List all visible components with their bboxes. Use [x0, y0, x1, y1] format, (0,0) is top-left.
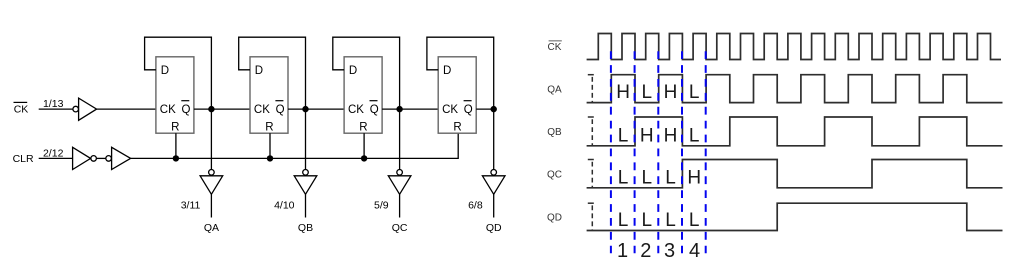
wire feedback Qbar to D of U1 [145, 37, 212, 109]
wire QC initial-state dashed marker [588, 159, 594, 161]
svg-text:D: D [255, 65, 263, 77]
inverter output buffer QC [397, 170, 403, 176]
svg-text:QB: QB [298, 222, 313, 234]
svg-text:L: L [689, 210, 700, 231]
svg-text:CK: CK [254, 104, 270, 116]
svg-text:1: 1 [617, 240, 628, 262]
inverter output buffer QD [491, 170, 497, 176]
inverter output buffer QA [209, 170, 215, 176]
svg-text:CK: CK [548, 42, 562, 53]
flip-flop U2 box [250, 57, 288, 133]
svg-text:H: H [687, 167, 701, 188]
svg-text:1/13: 1/13 [43, 98, 64, 110]
wire feedback Qbar to D of U2 [239, 37, 306, 109]
junction on CLR rail at U2 [267, 155, 273, 161]
svg-text:R: R [453, 121, 461, 133]
svg-text:L: L [642, 167, 653, 188]
wire output QD [493, 194, 495, 217]
svg-text:L: L [618, 210, 629, 231]
inverter output buffer QB [303, 170, 309, 176]
svg-text:R: R [265, 121, 273, 133]
wire junction down to output inverter U1 [210, 109, 212, 169]
svg-text:4: 4 [689, 240, 700, 262]
wire QA initial-state dashed marker [588, 74, 594, 76]
svg-text:QC: QC [392, 222, 408, 234]
svg-text:Q: Q [464, 104, 473, 116]
wire QB waveform [587, 117, 1003, 146]
node timing cursor line 3 [657, 51, 659, 253]
svg-text:2/12: 2/12 [43, 148, 64, 160]
junction node on CK line at U3 output [396, 106, 402, 112]
svg-text:L: L [642, 210, 653, 231]
svg-text:Q: Q [182, 104, 191, 116]
junction node on CK line at U4 output [491, 106, 497, 112]
svg-text:L: L [665, 210, 676, 231]
junction on CLR rail at U1 [173, 155, 179, 161]
wire CK buffer to FF1 [97, 108, 156, 110]
svg-text:H: H [664, 125, 678, 146]
svg-text:5/9: 5/9 [374, 200, 389, 212]
svg-text:L: L [689, 125, 700, 146]
junction on CLR rail at U3 [361, 155, 367, 161]
wire CK waveform [587, 34, 1001, 60]
wire QD initial-state dashed marker [588, 202, 594, 204]
svg-text:3: 3 [664, 240, 675, 262]
flip-flop U3 box [344, 57, 382, 133]
wire Qbar of U4 to output [476, 108, 494, 110]
wire CLR input [39, 157, 73, 159]
wire Qbar of U1 to CK of U2 [194, 108, 250, 110]
wire R pin of U1 [175, 133, 177, 158]
wire junction down to output inverter U3 [399, 109, 401, 169]
svg-text:D: D [443, 65, 451, 77]
svg-text:CK: CK [442, 104, 458, 116]
svg-text:Q: Q [276, 104, 285, 116]
inverter CLR first [73, 147, 91, 169]
svg-text:D: D [161, 65, 169, 77]
wire output QB [305, 194, 307, 217]
svg-text:QA: QA [204, 222, 219, 234]
junction node on CK line at U1 output [208, 106, 214, 112]
wire output QC [399, 194, 401, 217]
svg-text:2: 2 [640, 240, 651, 262]
svg-text:L: L [618, 125, 629, 146]
svg-text:L: L [665, 167, 676, 188]
wire junction down to output inverter U2 [305, 109, 307, 169]
junction node on CK line at U2 output [302, 106, 308, 112]
svg-text:L: L [689, 82, 700, 103]
svg-text:QB: QB [547, 127, 562, 138]
svg-text:H: H [640, 125, 654, 146]
svg-text:D: D [349, 65, 357, 77]
inverter CLR second [106, 156, 112, 162]
svg-text:4/10: 4/10 [274, 200, 295, 212]
svg-text:QD: QD [547, 213, 562, 224]
svg-text:Q: Q [370, 104, 379, 116]
flip-flop U4 box [438, 57, 476, 133]
wire junction down to output inverter U4 [493, 109, 495, 169]
svg-text:QD: QD [486, 222, 502, 234]
wire Qbar of U2 to CK of U3 [288, 108, 344, 110]
svg-text:L: L [642, 82, 653, 103]
flip-flop U1 box [156, 57, 194, 133]
svg-text:CLR: CLR [13, 153, 34, 165]
wire feedback Qbar to D of U3 [333, 37, 400, 109]
wire feedback Qbar to D of U4 [427, 37, 494, 109]
node timing cursor line 4 [681, 51, 683, 253]
svg-text:6/8: 6/8 [468, 200, 483, 212]
svg-text:3/11: 3/11 [181, 200, 201, 212]
wire CLR rail to R pins [131, 133, 459, 158]
svg-text:R: R [171, 121, 179, 133]
wire between CLR inverters [96, 157, 105, 159]
svg-text:R: R [359, 121, 367, 133]
wire QD waveform [587, 203, 1003, 230]
svg-text:L: L [618, 167, 629, 188]
node CK input label [14, 104, 29, 116]
wire R pin of U3 [363, 133, 365, 158]
node timing cursor line 2 [634, 51, 636, 253]
wire QC waveform [587, 160, 1003, 188]
node timing cursor line 5 [705, 51, 707, 253]
wire Qbar of U3 to CK of U4 [382, 108, 438, 110]
svg-text:CK: CK [14, 104, 29, 116]
svg-text:CK: CK [160, 104, 176, 116]
node timing cursor line 1 [610, 51, 612, 253]
wire CK input [39, 108, 73, 110]
svg-text:H: H [664, 82, 678, 103]
svg-text:QC: QC [547, 169, 562, 180]
inverter CK input buffer [73, 106, 79, 112]
svg-text:CK: CK [348, 104, 364, 116]
wire QA waveform [587, 75, 1003, 103]
wire output QA [210, 194, 212, 217]
wire QB initial-state dashed marker [588, 116, 594, 118]
wire R pin of U2 [269, 133, 271, 158]
svg-text:QA: QA [547, 84, 562, 95]
svg-text:H: H [616, 82, 630, 103]
